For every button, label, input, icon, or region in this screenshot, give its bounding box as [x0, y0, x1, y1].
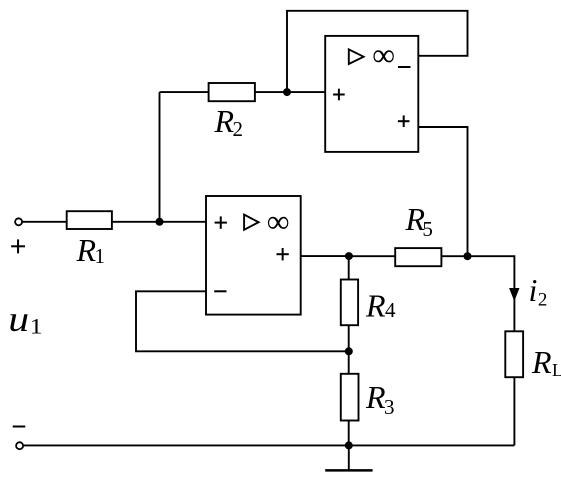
node C	[345, 252, 353, 260]
wire U1 output to node C	[301, 255, 349, 257]
wire R2 to node B	[255, 91, 287, 93]
svg-text:R2: R2	[214, 103, 244, 141]
wire input to R1	[22, 221, 66, 223]
label - (U1 inverting input)	[214, 290, 226, 292]
wire node E to R3	[348, 351, 350, 374]
svg-text:∞: ∞	[372, 37, 395, 73]
svg-text:R5: R5	[405, 201, 433, 241]
wire RL to bottom rail	[513, 377, 515, 445]
resistor RL	[505, 331, 523, 377]
wire R5 to node D	[441, 255, 467, 257]
terminal input +	[15, 218, 22, 225]
svg-text:RL: RL	[531, 344, 561, 380]
wire node B to U2 inverting terminal (top feedback)	[287, 11, 468, 92]
svg-text:i2: i2	[529, 272, 548, 310]
label + (U1 output)	[277, 248, 289, 260]
ground	[325, 445, 372, 470]
terminal input -	[16, 442, 23, 449]
wire U1 inverting input feedback	[136, 291, 349, 351]
node A	[156, 218, 164, 226]
node E	[345, 347, 353, 355]
svg-text:u1: u1	[8, 300, 42, 340]
wire R4 to node E	[348, 325, 350, 351]
wire bottom rail	[23, 444, 514, 446]
current arrow i2	[509, 288, 519, 301]
resistor R5	[395, 248, 441, 266]
wire node B to U2 + input	[287, 91, 325, 93]
wire node A up to R2	[159, 92, 161, 222]
wire node C to R5	[349, 255, 395, 257]
resistor R1	[67, 211, 112, 229]
svg-text:R3: R3	[365, 379, 395, 419]
wire U2 output to node D	[418, 127, 467, 256]
node B	[283, 88, 291, 96]
node D	[464, 252, 472, 260]
resistor R4	[341, 280, 358, 326]
op-amp U1	[206, 196, 301, 315]
wire to R2	[160, 91, 209, 93]
label + (input polarity)	[11, 239, 25, 253]
svg-text:R4: R4	[365, 288, 396, 324]
wire node D to load branch	[468, 256, 515, 331]
wire R3 to node F	[348, 421, 350, 446]
svg-text:∞: ∞	[267, 203, 290, 239]
wire node A to U1 + input	[160, 221, 207, 223]
resistor R3	[341, 374, 359, 421]
label + (U2 output)	[398, 115, 410, 127]
resistor R2	[209, 83, 255, 101]
label - (U2 inverting terminal)	[398, 66, 411, 68]
node F	[345, 441, 353, 449]
op-amp U2	[325, 36, 418, 152]
label - (input polarity)	[13, 426, 26, 428]
wire R1 to node A	[112, 221, 160, 223]
label + (U1 noninverting input)	[215, 216, 227, 228]
label + (U2 noninverting input)	[333, 89, 345, 101]
svg-text:R1: R1	[76, 232, 106, 268]
wire node C down to R4	[348, 256, 350, 279]
